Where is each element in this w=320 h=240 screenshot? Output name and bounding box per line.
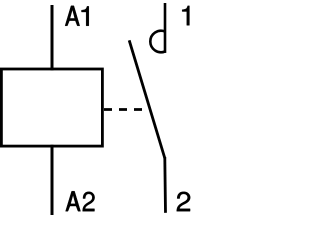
contact blade (moving contact) bbox=[129, 40, 165, 158]
terminal label A2 bbox=[66, 191, 95, 211]
contact arc (semicircle of NO contactor contact) bbox=[150, 31, 165, 53]
wire A1 (top coil lead) bbox=[51, 5, 54, 70]
coil K1 (operating coil box) bbox=[1, 69, 102, 146]
wire: fixed contact top lead (pin 1) bbox=[164, 3, 167, 53]
wire A2 (bottom coil lead) bbox=[51, 145, 54, 215]
terminal label 1 bbox=[182, 6, 189, 25]
terminal label A1 bbox=[65, 6, 89, 26]
terminal label 2 bbox=[177, 192, 191, 211]
dashed mechanical linkage coil-to-contact bbox=[104, 108, 147, 111]
wire: bottom contact lead (pin 2) bbox=[163, 157, 166, 213]
